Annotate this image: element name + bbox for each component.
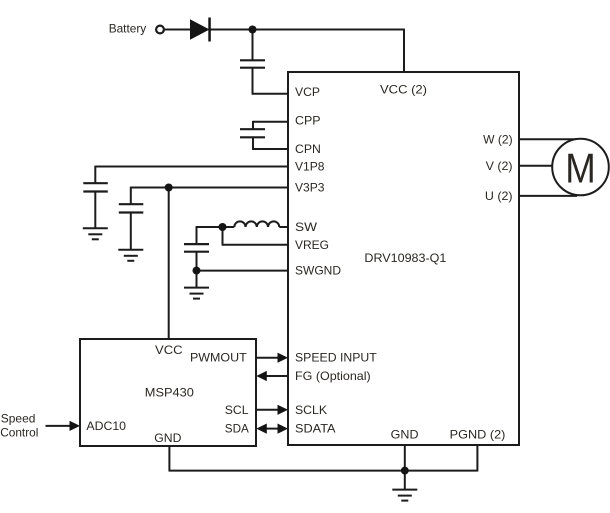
svg-text:V1P8: V1P8 <box>295 160 325 174</box>
svg-text:ADC10: ADC10 <box>86 419 126 433</box>
svg-text:SCL: SCL <box>225 403 249 417</box>
svg-text:SW: SW <box>295 220 318 234</box>
svg-text:SPEED INPUT: SPEED INPUT <box>295 351 377 365</box>
svg-text:MSP430: MSP430 <box>145 386 194 400</box>
svg-text:SCLK: SCLK <box>295 403 327 417</box>
svg-text:CPN: CPN <box>295 142 321 156</box>
svg-text:VREG: VREG <box>295 238 329 252</box>
svg-text:Control: Control <box>0 426 38 440</box>
svg-text:SWGND: SWGND <box>295 264 341 278</box>
svg-text:SDA: SDA <box>225 422 249 436</box>
svg-text:M: M <box>565 145 596 192</box>
svg-text:Speed: Speed <box>1 411 36 425</box>
svg-text:GND: GND <box>154 431 181 445</box>
svg-text:PWMOUT: PWMOUT <box>190 351 247 365</box>
svg-text:V (2): V (2) <box>486 159 513 173</box>
svg-text:VCC: VCC <box>155 343 183 357</box>
svg-text:V3P3: V3P3 <box>295 181 325 195</box>
svg-text:SDATA: SDATA <box>295 422 336 436</box>
svg-text:VCP: VCP <box>295 85 320 99</box>
svg-text:DRV10983-Q1: DRV10983-Q1 <box>364 251 446 265</box>
svg-text:Battery: Battery <box>109 21 147 35</box>
svg-text:PGND (2): PGND (2) <box>450 428 506 442</box>
svg-text:U (2): U (2) <box>485 189 513 203</box>
svg-text:FG (Optional): FG (Optional) <box>295 369 371 383</box>
svg-text:W (2): W (2) <box>483 132 513 146</box>
svg-text:GND: GND <box>391 428 419 442</box>
svg-text:VCC (2): VCC (2) <box>380 82 427 96</box>
svg-text:CPP: CPP <box>295 114 321 128</box>
